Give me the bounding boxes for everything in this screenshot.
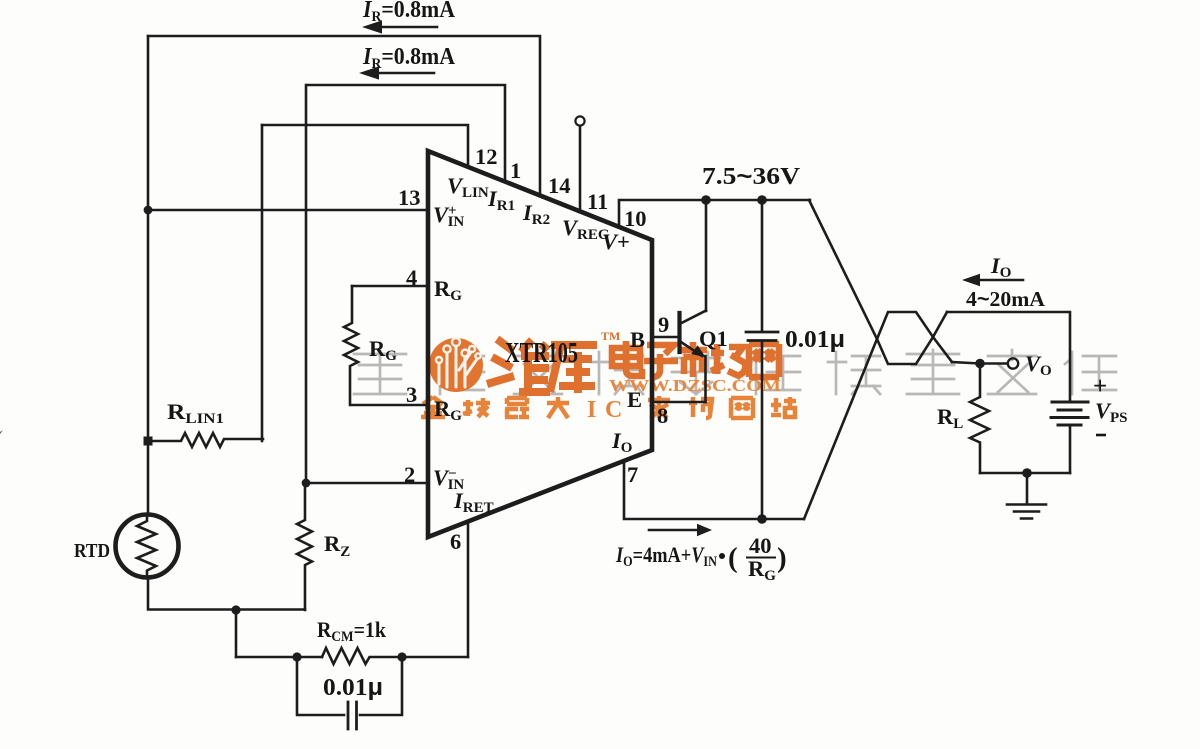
node bottom wire junction (757, 514, 767, 524)
RTD element zigzag (137, 515, 156, 577)
wire pin 6 riser (467, 521, 470, 657)
twisted pair top-right diagonal (933, 312, 947, 337)
wire rail IR top (148, 36, 540, 196)
wire pin 11 (579, 126, 582, 212)
node pin2 junction (302, 479, 311, 488)
watermark gray company text (354, 350, 1116, 394)
svg-text:TM: TM (601, 329, 620, 343)
node VO junction (975, 359, 985, 369)
wire Q1 collector (705, 200, 708, 311)
twisted pair bottom-right diagonal (933, 337, 952, 362)
wire RZ top riser (305, 85, 308, 483)
svg-text:8: 8 (657, 403, 668, 428)
wire RL bottom to battery (980, 472, 1070, 475)
wire RTD bottom (148, 579, 305, 610)
arrow IO top right (978, 279, 1023, 282)
wire pin 2 (306, 482, 427, 485)
node rail junction cap (757, 195, 767, 205)
wm slogan quan (421, 397, 445, 417)
svg-text:4~20mA: 4~20mA (966, 287, 1046, 311)
wm char chang (711, 344, 745, 377)
svg-text:2: 2 (404, 462, 415, 487)
terminal VREG pin 11 (575, 116, 584, 125)
arrow IO bottom (649, 529, 699, 532)
svg-text:E: E (627, 387, 642, 412)
wire left vertical to RTD (147, 36, 150, 513)
svg-text:7.5~36V: 7.5~36V (702, 163, 801, 190)
wire pin 10 to V+ rail (619, 200, 810, 227)
node pin13 junction (144, 206, 153, 215)
wire rail IR second (307, 85, 505, 182)
ground (1026, 473, 1029, 504)
wire battery bottom (1069, 425, 1072, 473)
arrow IR top (378, 26, 437, 29)
svg-text:B: B (630, 327, 645, 352)
node rail junction Q1 (701, 195, 711, 205)
wm char dian (612, 341, 642, 376)
svg-text:+: + (1093, 373, 1107, 400)
wm slogan zhan (771, 397, 796, 417)
wm char wei (487, 339, 550, 393)
svg-text:7: 7 (627, 462, 638, 487)
wm slogan cai (648, 396, 670, 418)
capacitor 0.01u right bottom lead (761, 341, 764, 519)
twisted pair eye top (877, 312, 933, 339)
watermark logo circle (429, 338, 483, 392)
wm slogan da (547, 397, 569, 418)
battery VPS (1052, 401, 1088, 404)
resistor RZ (297, 483, 312, 610)
svg-text:10: 10 (624, 206, 647, 231)
wm char shi (679, 342, 707, 377)
capacitor 0.01u right plates (746, 332, 778, 341)
RTD body (116, 515, 179, 578)
twisted pair eye bottom (877, 337, 933, 364)
svg-text:): ) (777, 542, 787, 574)
capacitor 0.01u right top lead (761, 200, 764, 331)
resistor RL (970, 364, 989, 474)
wire pin 13 (148, 209, 427, 212)
wm char zi (644, 345, 678, 377)
resistor RCM (322, 648, 468, 664)
svg-text:6: 6 (450, 529, 461, 554)
svg-text:XTR105: XTR105 (505, 338, 578, 369)
svg-text:RTD: RTD (74, 540, 110, 562)
wm slogan qiu (463, 398, 490, 417)
svg-text:1: 1 (510, 158, 521, 183)
node RCM left junction (292, 652, 301, 661)
wm char ku (550, 345, 597, 393)
resistor RLIN1 (148, 433, 263, 447)
watermark orange text (421, 329, 796, 423)
capacitor CCM right branch (360, 657, 402, 715)
label minus (1096, 434, 1106, 437)
op-amp U1 XTR105 body (428, 151, 652, 537)
wire VO node (952, 362, 1007, 364)
svg-text:(: ( (728, 542, 738, 574)
node RLIN1 left junction (144, 437, 153, 446)
svg-text:4: 4 (406, 265, 417, 290)
wire rail third to pin 12 (262, 125, 468, 167)
twisted pair bottom-left diagonal (804, 339, 877, 519)
scan speck left edge (0, 429, 4, 434)
svg-text:40: 40 (749, 533, 772, 558)
capacitor CCM plates (348, 702, 357, 729)
wire RCM left (236, 656, 322, 659)
wm slogan wang2 (731, 398, 753, 418)
svg-text:Q1: Q1 (699, 326, 728, 351)
capacitor CCM left branch (297, 657, 344, 715)
svg-text:0.01μ: 0.01μ (785, 326, 845, 353)
svg-text:13: 13 (398, 185, 421, 210)
wire pin 8 (652, 401, 706, 404)
svg-text:14: 14 (548, 173, 571, 198)
transistor Q1 (677, 313, 681, 352)
svg-text:12: 12 (475, 144, 498, 169)
svg-text:9: 9 (658, 312, 669, 337)
wire pin 4 (352, 285, 427, 288)
wm slogan zui (505, 398, 529, 417)
svg-text:I: I (587, 397, 596, 423)
wm char wang (749, 344, 779, 377)
node RCM right junction (397, 652, 406, 661)
svg-text:3: 3 (406, 382, 417, 407)
svg-text:V+: V+ (602, 229, 630, 254)
svg-text:0.01μ: 0.01μ (323, 674, 383, 701)
wire 4-20mA to battery (947, 312, 1070, 401)
twisted pair top-left diagonal (809, 200, 877, 339)
node ground junction (1022, 468, 1032, 478)
wm slogan gou (689, 397, 712, 418)
arrow IR second (375, 72, 434, 75)
wire pin 7 and bottom return (624, 461, 804, 519)
wire pin 9 base (652, 336, 679, 339)
terminal VO (1008, 358, 1018, 368)
node RTD bottom junction (231, 605, 240, 614)
svg-text:C: C (605, 397, 622, 423)
wire RLIN1 right riser (261, 125, 264, 441)
svg-text:11: 11 (587, 189, 608, 214)
wire down to RCM row (235, 610, 238, 657)
wire Q1 emitter (704, 356, 707, 402)
wire pin 3 (352, 404, 427, 407)
resistor RG external (344, 286, 358, 405)
